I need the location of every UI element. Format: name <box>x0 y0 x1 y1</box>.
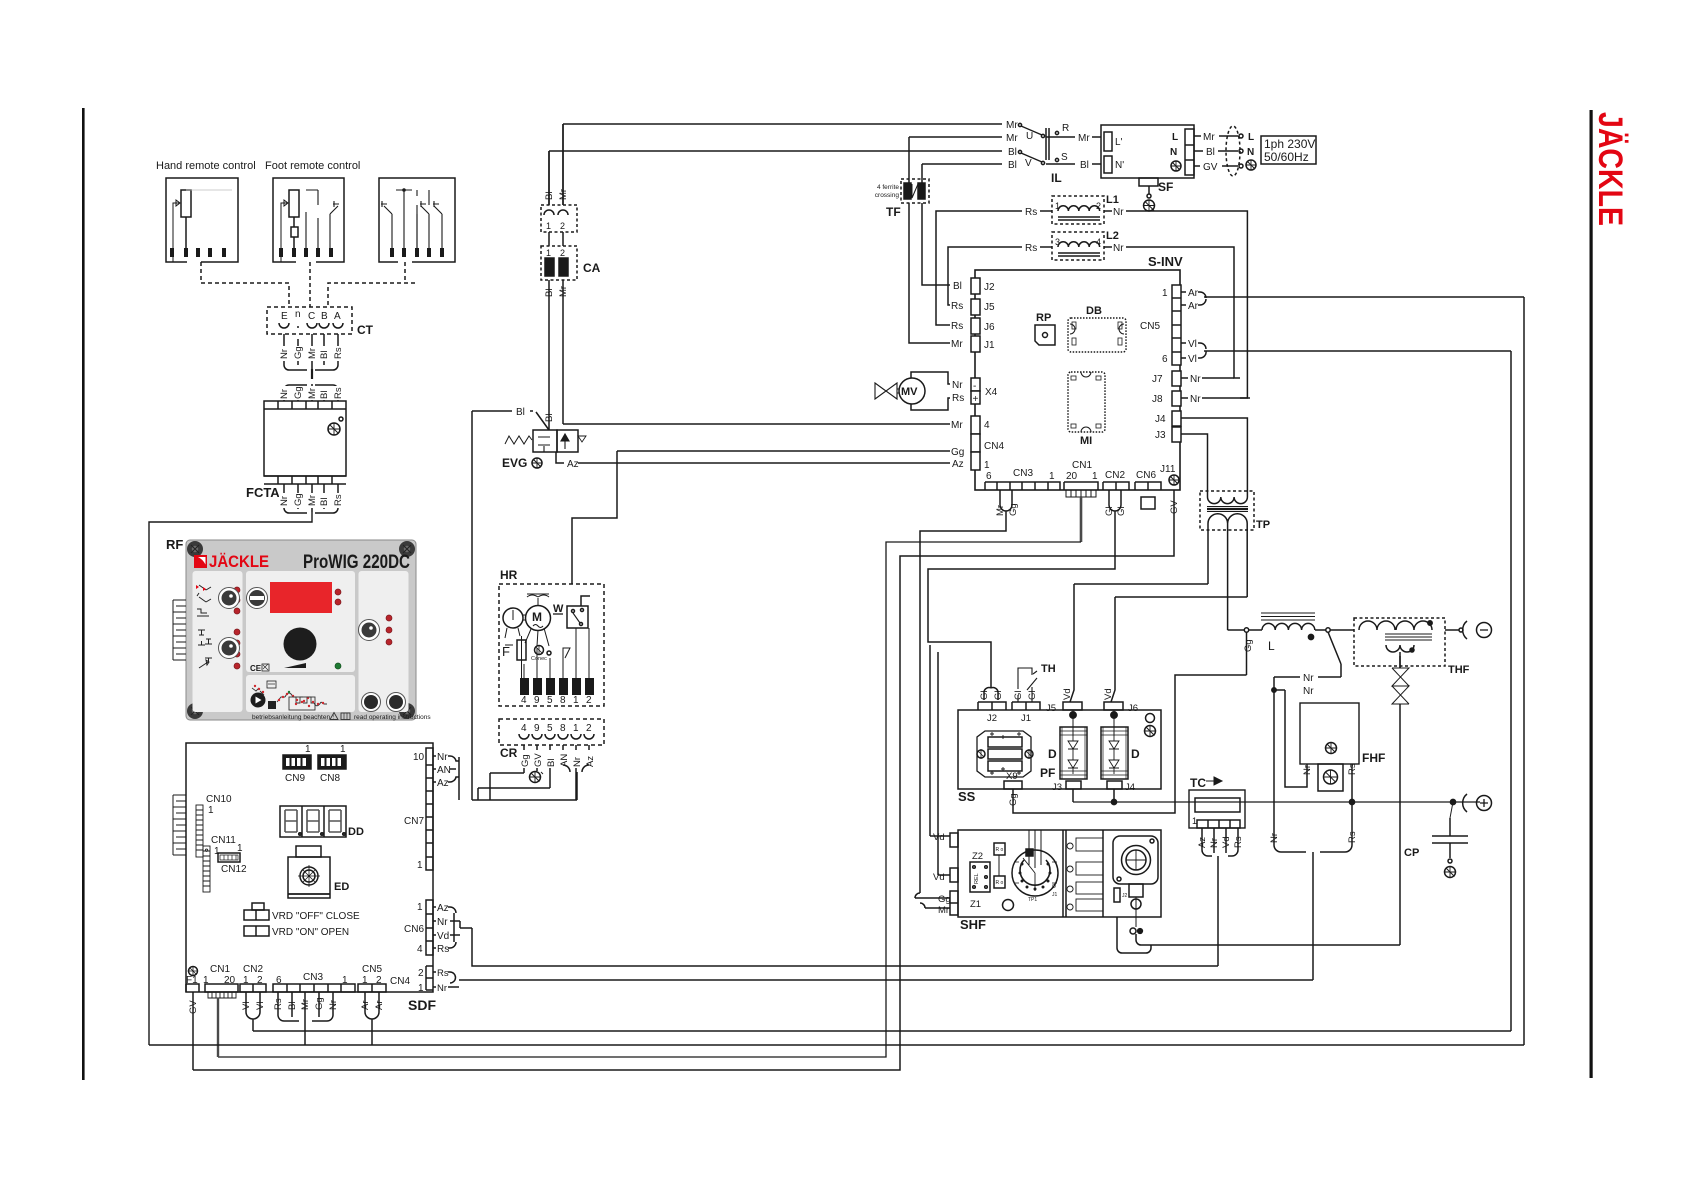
svg-text:CN11: CN11 <box>211 835 236 846</box>
svg-text:O: O <box>1052 884 1056 890</box>
svg-text:TF: TF <box>886 205 901 219</box>
svg-text:J5: J5 <box>1046 703 1056 714</box>
svg-text:CN10: CN10 <box>206 794 232 805</box>
svg-text:Gg: Gg <box>1008 793 1019 806</box>
svg-text:2: 2 <box>560 221 565 231</box>
svg-text:Rs: Rs <box>952 393 964 404</box>
svg-text:CN12: CN12 <box>221 864 247 875</box>
svg-text:S-INV: S-INV <box>1148 254 1183 269</box>
svg-text:Vl: Vl <box>241 1002 252 1010</box>
svg-text:Mr: Mr <box>951 420 963 431</box>
svg-text:Bl: Bl <box>546 759 557 767</box>
svg-text:8: 8 <box>560 723 566 734</box>
svg-text:Nr: Nr <box>437 917 448 928</box>
svg-text:Mr: Mr <box>1078 133 1090 144</box>
svg-text:CN2: CN2 <box>1105 470 1125 481</box>
svg-text:CA: CA <box>583 261 601 275</box>
svg-text:CR: CR <box>500 746 518 760</box>
svg-text:X9: X9 <box>1006 771 1018 782</box>
svg-text:Gl: Gl <box>979 691 990 701</box>
svg-text:Rs: Rs <box>333 494 344 506</box>
svg-text:1: 1 <box>208 805 214 816</box>
svg-text:Mr: Mr <box>1006 133 1018 144</box>
svg-text:1: 1 <box>1162 288 1168 299</box>
svg-text:1: 1 <box>984 460 990 471</box>
svg-text:AN: AN <box>437 765 451 776</box>
svg-text:Gg: Gg <box>938 894 951 905</box>
svg-text:Mr: Mr <box>1006 120 1018 131</box>
svg-text:Bl: Bl <box>544 414 555 422</box>
svg-text:JÄCKLE: JÄCKLE <box>1591 112 1629 226</box>
svg-text:J6: J6 <box>1128 703 1138 714</box>
svg-text:V: V <box>1025 158 1032 169</box>
svg-text:Bl: Bl <box>1206 147 1215 158</box>
svg-text:Gl: Gl <box>1104 507 1115 517</box>
svg-text:J7: J7 <box>1152 374 1163 385</box>
svg-text:Conec: Conec <box>531 656 547 662</box>
svg-text:ED: ED <box>334 881 349 893</box>
svg-text:A: A <box>334 311 341 322</box>
svg-text:5: 5 <box>547 723 553 734</box>
svg-text:Gg: Gg <box>293 493 304 506</box>
svg-text:Bl: Bl <box>544 192 555 200</box>
svg-text:W: W <box>553 603 564 615</box>
svg-text:Gg: Gg <box>520 754 531 767</box>
svg-text:DB: DB <box>1086 305 1102 317</box>
svg-text:CN5: CN5 <box>1140 321 1160 332</box>
svg-text:R o: R o <box>996 847 1004 853</box>
svg-text:CN3: CN3 <box>303 972 323 983</box>
svg-text:n: n <box>295 309 301 320</box>
svg-text:Nr: Nr <box>1303 673 1314 684</box>
svg-text:Nr: Nr <box>1113 243 1124 254</box>
svg-text:CN1: CN1 <box>1072 460 1092 471</box>
svg-text:J1: J1 <box>984 340 995 351</box>
svg-text:Nr: Nr <box>572 757 583 767</box>
svg-text:Ar: Ar <box>1188 288 1199 299</box>
svg-text:F: F <box>502 644 510 659</box>
svg-text:Mr: Mr <box>558 286 569 297</box>
svg-text:N: N <box>1247 147 1254 158</box>
svg-text:DD: DD <box>348 826 364 838</box>
svg-text:PF: PF <box>1040 766 1055 780</box>
svg-text:Mr: Mr <box>558 189 569 200</box>
svg-text:1ph 230V: 1ph 230V <box>1264 137 1315 151</box>
svg-text:VRD "ON" OPEN: VRD "ON" OPEN <box>272 927 349 938</box>
svg-text:Nr: Nr <box>1303 686 1314 697</box>
svg-text:L: L <box>1248 132 1254 143</box>
svg-text:RP: RP <box>1036 312 1051 324</box>
svg-text:Foot remote control: Foot remote control <box>265 160 360 172</box>
svg-text:1: 1 <box>305 744 311 755</box>
svg-text:1: 1 <box>573 723 579 734</box>
svg-text:B: B <box>321 311 328 322</box>
svg-text:SHF: SHF <box>960 917 986 932</box>
svg-text:Vd: Vd <box>933 832 945 843</box>
svg-text:2: 2 <box>418 968 424 979</box>
svg-text:FCTA: FCTA <box>246 485 280 500</box>
svg-text:M: M <box>532 610 542 624</box>
svg-text:L: L <box>1172 132 1178 143</box>
svg-text:1: 1 <box>573 695 579 706</box>
svg-text:-: - <box>973 381 976 392</box>
svg-text:Mr: Mr <box>307 495 318 506</box>
svg-text:R o: R o <box>996 880 1004 886</box>
svg-text:J8: J8 <box>1152 394 1163 405</box>
svg-text:TC: TC <box>1190 776 1206 790</box>
svg-text:Az: Az <box>437 903 449 914</box>
svg-text:Az: Az <box>437 778 449 789</box>
svg-text:+: + <box>973 394 979 405</box>
svg-text:J4: J4 <box>1125 782 1135 793</box>
svg-text:Mr: Mr <box>951 339 963 350</box>
svg-text:Rs: Rs <box>951 301 963 312</box>
svg-text:Ar: Ar <box>1188 301 1199 312</box>
svg-text:CN6: CN6 <box>1136 470 1156 481</box>
svg-text:Nr: Nr <box>279 389 290 399</box>
svg-text:1: 1 <box>340 744 346 755</box>
svg-text:Rs: Rs <box>1025 207 1037 218</box>
svg-text:Ar: Ar <box>360 1001 371 1011</box>
svg-text:GV: GV <box>188 1000 199 1014</box>
svg-text:X4: X4 <box>985 387 998 398</box>
svg-text:Bl: Bl <box>953 281 962 292</box>
svg-text:J4: J4 <box>1155 414 1166 425</box>
svg-text:4: 4 <box>521 695 527 706</box>
svg-text:Bl: Bl <box>1008 160 1017 171</box>
svg-text:Rs: Rs <box>437 944 449 955</box>
svg-text:Bl: Bl <box>1008 147 1017 158</box>
svg-text:1: 1 <box>214 846 220 857</box>
svg-text:N': N' <box>1115 160 1124 171</box>
svg-text:EVG: EVG <box>502 456 527 470</box>
svg-text:GV: GV <box>1169 500 1180 514</box>
svg-text:Gl: Gl <box>993 691 1004 701</box>
svg-text:Gg: Gg <box>1008 503 1019 516</box>
svg-text:9: 9 <box>534 695 540 706</box>
svg-text:Vl: Vl <box>1188 339 1197 350</box>
svg-text:Nr: Nr <box>437 752 448 763</box>
svg-text:GV: GV <box>533 753 544 767</box>
svg-text:FHF: FHF <box>1362 751 1385 765</box>
svg-text:TP: TP <box>1256 519 1270 531</box>
svg-text:Gg: Gg <box>293 386 304 399</box>
svg-text:TP1: TP1 <box>1028 897 1037 903</box>
svg-text:2: 2 <box>586 723 592 734</box>
svg-text:1: 1 <box>546 221 551 231</box>
svg-text:CN4: CN4 <box>390 976 410 987</box>
svg-text:crossing: crossing <box>875 192 900 199</box>
svg-text:Z1: Z1 <box>970 899 981 910</box>
svg-text:J2: J2 <box>987 713 997 724</box>
svg-text:R: R <box>1062 123 1069 134</box>
svg-text:THF: THF <box>1448 664 1470 676</box>
svg-text:SF: SF <box>1158 180 1173 194</box>
svg-text:CP: CP <box>1404 847 1419 859</box>
svg-text:IL: IL <box>1051 171 1062 185</box>
svg-text:J11: J11 <box>1160 464 1176 475</box>
svg-text:SDF: SDF <box>408 997 436 1013</box>
svg-text:2: 2 <box>586 695 592 706</box>
svg-text:Rs: Rs <box>333 347 344 359</box>
svg-text:Vd: Vd <box>437 931 449 942</box>
svg-text:Rs: Rs <box>1025 243 1037 254</box>
svg-text:1: 1 <box>417 860 423 871</box>
svg-text:Gl: Gl <box>1013 691 1024 701</box>
svg-text:1: 1 <box>417 902 423 913</box>
svg-text:U: U <box>1026 131 1033 142</box>
svg-text:Bl: Bl <box>319 391 330 399</box>
svg-text:J3: J3 <box>1155 430 1166 441</box>
svg-text:L': L' <box>1115 137 1123 148</box>
svg-text:4 ferrite: 4 ferrite <box>877 184 899 191</box>
svg-text:Nr: Nr <box>279 496 290 506</box>
svg-text:1: 1 <box>546 248 551 258</box>
svg-text:VRD "OFF" CLOSE: VRD "OFF" CLOSE <box>272 911 360 922</box>
svg-text:Rs: Rs <box>273 998 284 1010</box>
svg-text:Mr: Mr <box>995 505 1006 516</box>
svg-text:SS: SS <box>958 789 976 804</box>
svg-text:Rs: Rs <box>333 387 344 399</box>
svg-text:Mr: Mr <box>307 388 318 399</box>
svg-text:Mr: Mr <box>938 905 949 916</box>
svg-text:Nr: Nr <box>952 380 963 391</box>
svg-text:E: E <box>281 311 288 322</box>
svg-text:9: 9 <box>534 723 540 734</box>
svg-text:J1: J1 <box>1052 892 1058 898</box>
svg-text:!: ! <box>333 715 334 721</box>
svg-text:Mr: Mr <box>300 999 311 1010</box>
svg-text:CN2: CN2 <box>243 964 263 975</box>
svg-text:5: 5 <box>547 695 553 706</box>
svg-text:REL: REL <box>974 873 980 884</box>
svg-text:read operating instructions: read operating instructions <box>354 714 431 721</box>
svg-text:Az: Az <box>952 459 964 470</box>
svg-text:1: 1 <box>1049 471 1055 482</box>
svg-text:JÄCKLE: JÄCKLE <box>209 553 269 571</box>
svg-text:J1: J1 <box>1021 713 1031 724</box>
svg-text:4: 4 <box>984 420 990 431</box>
svg-text:MI: MI <box>1080 435 1092 447</box>
svg-text:4: 4 <box>417 944 423 955</box>
svg-text:MV: MV <box>901 386 918 398</box>
svg-text:Mr: Mr <box>307 348 318 359</box>
svg-text:Rs: Rs <box>437 968 449 979</box>
svg-text:Ar: Ar <box>374 1001 385 1011</box>
svg-text:J2: J2 <box>984 282 995 293</box>
svg-text:N: N <box>1170 147 1177 158</box>
svg-text:Gl: Gl <box>1116 507 1127 517</box>
svg-text:J5: J5 <box>984 302 995 313</box>
svg-text:8: 8 <box>560 695 566 706</box>
svg-text:CN8: CN8 <box>320 773 340 784</box>
svg-text:RF: RF <box>166 537 183 552</box>
svg-text:ProWIG 220DC: ProWIG 220DC <box>303 552 410 573</box>
svg-text:Nr: Nr <box>437 983 447 994</box>
svg-text:D: D <box>1048 747 1057 761</box>
svg-text:CN3: CN3 <box>1013 468 1033 479</box>
svg-text:Bl: Bl <box>1080 160 1089 171</box>
svg-text:J3: J3 <box>1052 782 1062 793</box>
svg-text:CE: CE <box>250 664 262 673</box>
svg-text:Bl: Bl <box>319 351 330 359</box>
svg-text:GV: GV <box>1203 162 1218 173</box>
svg-text:CN6: CN6 <box>404 924 424 935</box>
svg-text:TH: TH <box>1041 663 1056 675</box>
svg-text:Mr: Mr <box>1203 132 1215 143</box>
svg-text:S: S <box>1061 152 1068 163</box>
svg-text:CT: CT <box>357 323 374 337</box>
svg-text:6: 6 <box>986 471 992 482</box>
svg-text:J2: J2 <box>1122 893 1128 899</box>
svg-text:Bl: Bl <box>544 289 555 297</box>
svg-text:CN5: CN5 <box>362 964 382 975</box>
svg-text:Bl: Bl <box>319 498 330 506</box>
svg-text:Bl: Bl <box>287 1002 298 1010</box>
svg-text:D: D <box>1131 747 1140 761</box>
svg-text:Az: Az <box>567 459 579 470</box>
svg-text:L1: L1 <box>1106 194 1119 206</box>
svg-text:Nr: Nr <box>1113 207 1124 218</box>
svg-text:2: 2 <box>560 248 565 258</box>
svg-text:Vl: Vl <box>255 1002 266 1010</box>
svg-text:betriebsanleitung beachten: betriebsanleitung beachten <box>252 714 330 721</box>
svg-text:Nr: Nr <box>328 1000 339 1010</box>
svg-text:Hand remote control: Hand remote control <box>156 160 256 172</box>
svg-text:1: 1 <box>1092 471 1098 482</box>
svg-text:CN4: CN4 <box>984 441 1004 452</box>
svg-text:Gg: Gg <box>1243 639 1254 652</box>
svg-text:6: 6 <box>1162 354 1168 365</box>
svg-text:CN1: CN1 <box>210 964 230 975</box>
svg-text:Bl: Bl <box>516 407 525 418</box>
svg-text:Vd: Vd <box>933 872 945 883</box>
svg-text:Z2: Z2 <box>972 851 983 862</box>
svg-text:1: 1 <box>418 983 424 994</box>
svg-text:Gg: Gg <box>314 997 325 1010</box>
svg-text:HR: HR <box>500 568 518 582</box>
svg-text:Gg: Gg <box>951 447 964 458</box>
svg-text:J6: J6 <box>984 322 995 333</box>
svg-text:C: C <box>308 311 315 322</box>
svg-text:Nr: Nr <box>1190 394 1201 405</box>
svg-text:Gl: Gl <box>1027 691 1038 701</box>
svg-text:4: 4 <box>521 723 527 734</box>
svg-text:Nr: Nr <box>1190 374 1201 385</box>
svg-text:20: 20 <box>1066 471 1078 482</box>
svg-text:CN9: CN9 <box>285 773 305 784</box>
svg-text:Gg: Gg <box>293 346 304 359</box>
svg-text:CN7: CN7 <box>404 816 424 827</box>
svg-text:Rs: Rs <box>951 321 963 332</box>
svg-text:50/60Hz: 50/60Hz <box>1264 150 1309 164</box>
svg-text:L: L <box>1268 639 1275 653</box>
svg-text:Vl: Vl <box>1188 354 1197 365</box>
svg-text:10: 10 <box>413 752 425 763</box>
svg-text:L2: L2 <box>1106 230 1119 242</box>
svg-text:Nr: Nr <box>279 349 290 359</box>
